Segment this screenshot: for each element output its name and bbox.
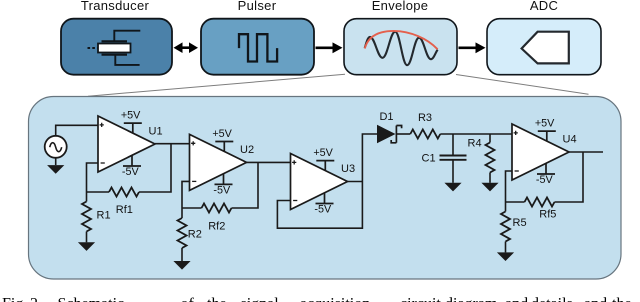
- wire U1 - input to feedback node: [87, 163, 99, 192]
- resistor R5: [501, 202, 510, 242]
- svg-text:Envelope: Envelope: [372, 0, 429, 13]
- pulser square-wave icon: [239, 34, 277, 61]
- double arrow Transducer-Pulser: [174, 42, 199, 53]
- svg-text:-5V: -5V: [122, 166, 140, 178]
- svg-text:ADC: ADC: [530, 0, 558, 13]
- svg-text:+5V: +5V: [212, 128, 232, 140]
- op-amp U3: [291, 154, 348, 210]
- wire U2 - input to feedback node: [182, 181, 190, 208]
- wire U3 feedback loop (voltage follower): [277, 182, 362, 229]
- block Envelope: [344, 19, 457, 75]
- ground below R1: [78, 232, 95, 251]
- svg-text:U1: U1: [149, 125, 163, 137]
- resistor Rf2: [182, 204, 232, 213]
- U1 -5V supply rail: [122, 155, 141, 178]
- svg-text:D1: D1: [379, 111, 393, 123]
- svg-text:Rf1: Rf1: [116, 204, 133, 216]
- resistor R4: [486, 134, 495, 183]
- U4 -5V supply rail: [536, 163, 555, 186]
- arrow Pulser-Envelope: [316, 42, 343, 53]
- diode D1 (Schottky): [377, 125, 410, 143]
- svg-text:R2: R2: [188, 229, 202, 241]
- U2 -5V supply rail: [213, 174, 232, 197]
- wire source to U1 + input: [56, 125, 98, 136]
- svg-text:R5: R5: [513, 217, 527, 229]
- svg-text:+5V: +5V: [535, 118, 555, 130]
- svg-text:R1: R1: [97, 210, 111, 222]
- resistor R1: [82, 192, 91, 232]
- wire Rf5 to U4 output: [555, 152, 584, 202]
- wire U3 output to diode D1: [348, 134, 378, 182]
- ADC converter icon: [522, 32, 569, 64]
- ground below R2: [173, 248, 190, 270]
- zoom guide line left: [88, 74, 345, 96]
- svg-text:R4: R4: [468, 138, 482, 150]
- svg-text:-5V: -5V: [213, 184, 231, 196]
- svg-text:U3: U3: [341, 163, 355, 175]
- ground below C1: [444, 183, 461, 192]
- ground below R4: [481, 183, 498, 192]
- U2 +5V supply rail: [212, 128, 233, 152]
- envelope detection curve (red): [365, 31, 438, 49]
- op-amp U1: [98, 116, 155, 172]
- wire R3 to U4 + input: [440, 133, 512, 135]
- U3 +5V supply rail: [313, 147, 334, 171]
- svg-text:Pulser: Pulser: [238, 0, 277, 13]
- wire U1 output to U2 + input: [155, 143, 190, 145]
- wire U2 output to U3 + input: [247, 161, 291, 163]
- envelope sine wave icon: [365, 32, 438, 65]
- svg-text:+5V: +5V: [121, 110, 141, 122]
- U4 +5V supply rail: [535, 118, 556, 142]
- svg-text:Transducer: Transducer: [81, 0, 150, 13]
- resistor Rf5: [506, 198, 555, 207]
- schematic detail panel: [29, 97, 622, 280]
- capacitor C1: [440, 134, 467, 183]
- svg-text:+5V: +5V: [313, 147, 333, 159]
- svg-text:U4: U4: [563, 133, 577, 145]
- transducer crystal icon: [88, 31, 141, 65]
- ground below source: [47, 158, 64, 174]
- op-amp U4: [512, 124, 569, 180]
- arrow Envelope-ADC: [459, 42, 486, 53]
- svg-text:U2: U2: [240, 144, 254, 156]
- wire Rf1 to U1 output: [139, 144, 171, 192]
- svg-text:Rf5: Rf5: [539, 209, 556, 221]
- wire U4 - input to feedback node: [506, 171, 513, 202]
- wire Rf2 to U2 output: [232, 162, 259, 208]
- svg-text:C1: C1: [422, 153, 436, 165]
- block ADC: [487, 19, 601, 75]
- U3 -5V supply rail: [314, 193, 333, 216]
- zoom guide line right: [456, 75, 589, 95]
- resistor R3: [410, 130, 440, 139]
- svg-text:-5V: -5V: [536, 174, 554, 186]
- ground below R5: [497, 242, 514, 262]
- resistor Rf1: [87, 188, 140, 197]
- svg-text:R3: R3: [418, 112, 432, 124]
- svg-text:Fig.2.Schematicofthesignalacqu: Fig.2.Schematicofthesignalacquisitioncir…: [2, 296, 632, 302]
- block Transducer: [61, 19, 172, 75]
- U1 +5V supply rail: [121, 110, 142, 134]
- resistor R2: [178, 208, 187, 248]
- signal source VS: [45, 136, 67, 158]
- svg-text:Rf2: Rf2: [208, 221, 225, 233]
- wire U4 output: [569, 151, 603, 153]
- op-amp U2: [190, 134, 247, 190]
- svg-text:-5V: -5V: [314, 204, 332, 216]
- block Pulser: [201, 19, 314, 75]
